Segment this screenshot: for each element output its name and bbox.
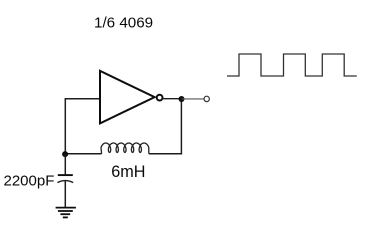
ground symbol bar 3 — [60, 213, 70, 215]
ground symbol bar 2 — [58, 210, 73, 212]
wire feedback left vertical — [64, 99, 66, 154]
inverter output bubble — [157, 95, 163, 101]
svg-text:1/6 4069: 1/6 4069 — [94, 15, 153, 32]
capacitor C1 curved bottom plate — [57, 181, 73, 183]
wire capacitor to ground — [64, 181, 66, 208]
ground symbol bar 4 — [63, 216, 68, 218]
wire bottom right segment (inductor to riser) — [149, 153, 182, 155]
node junction dot A (bottom left) — [62, 151, 68, 157]
wire feedback right vertical riser — [180, 99, 182, 155]
svg-text:6mH: 6mH — [111, 163, 145, 181]
wire bottom left segment (node A to inductor) — [65, 153, 101, 155]
wire node to output terminal — [182, 98, 204, 100]
op-amp U1 inverter triangle (1/6 4069) — [100, 71, 155, 124]
wire inverter bubble to output node — [163, 98, 182, 100]
svg-text:2200pF: 2200pF — [4, 172, 55, 189]
capacitor C1 top plate — [58, 174, 73, 176]
output square wave symbol — [227, 54, 357, 76]
inductor L1 coil — [101, 143, 149, 154]
capacitor C1 top lead wire — [64, 154, 66, 174]
wire input (node A to inverter input) — [65, 98, 100, 100]
node junction dot (output node) — [179, 96, 185, 102]
ground symbol bar 1 — [56, 207, 76, 209]
output terminal open circle — [204, 96, 209, 101]
